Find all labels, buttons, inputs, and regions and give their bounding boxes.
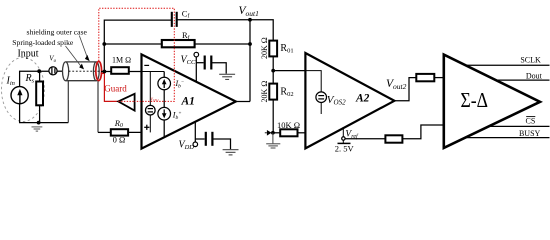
wire Vref resistor to ADC <box>402 125 443 139</box>
wire 10K to A2 <box>298 132 306 134</box>
svg-text:shielding outer case: shielding outer case <box>27 28 88 37</box>
guard loop black wire up and top <box>104 20 172 71</box>
ground J2 <box>266 133 280 148</box>
resistor Rs <box>36 82 43 106</box>
wire case to R0 <box>98 131 111 133</box>
svg-text:2. 5V: 2. 5V <box>335 144 355 154</box>
resistor 1M <box>111 67 129 74</box>
case left wall <box>67 81 69 123</box>
svg-text:CS: CS <box>526 116 536 125</box>
node bottom <box>37 121 41 125</box>
guard buffer triangle <box>118 94 134 111</box>
main wire cable to 1M <box>101 71 111 73</box>
svg-text:VOS1: VOS1 <box>150 96 159 102</box>
wire R01 to J1 <box>272 56 274 70</box>
Vref stem <box>342 127 344 137</box>
wire Iin bottom / ground rail <box>20 104 69 123</box>
Vcc terminal <box>194 52 199 57</box>
resistor Vout2 <box>416 74 434 81</box>
ground (input) <box>32 127 43 131</box>
current source Ib+ <box>158 107 171 137</box>
guard dashed loop <box>99 8 175 101</box>
resistor R02 <box>269 84 277 100</box>
node top <box>37 69 41 73</box>
node J2 <box>271 131 275 135</box>
op-amp A2 <box>305 53 394 148</box>
2.5V rail bar <box>338 142 351 144</box>
SCLK line <box>465 64 549 66</box>
wire Rs bottom <box>39 105 41 122</box>
resistor Rf <box>162 40 195 47</box>
ADC sigma-delta <box>444 55 540 148</box>
wire resistor to ADC <box>434 77 444 79</box>
wire R02 to J2 <box>272 100 274 133</box>
svg-text:BUSY: BUSY <box>519 129 541 138</box>
guard red wire <box>101 73 118 101</box>
A1 inverting input internal wire <box>142 71 165 73</box>
sensor model dashed ellipse <box>2 58 45 122</box>
decoupling cap Vcc <box>196 56 226 74</box>
svg-text:Spring-loaded spike: Spring-loaded spike <box>12 38 74 47</box>
svg-text:Dout: Dout <box>526 72 543 81</box>
svg-text:0 Ω: 0 Ω <box>113 135 126 145</box>
Vos1 stem to plus input <box>149 115 151 132</box>
coax shield cylinder <box>63 62 100 81</box>
wire J1 to A2 <box>273 70 305 72</box>
wire Rf to Vout1 node <box>195 43 250 45</box>
svg-text:1M Ω: 1M Ω <box>112 55 131 64</box>
Vos2 stem <box>320 103 322 115</box>
BUSY line <box>466 137 550 139</box>
wire 1M to A1 <box>129 71 142 73</box>
resistor 10K <box>280 129 297 136</box>
wire Iin top to node <box>20 71 49 86</box>
A2 plus input internal wire <box>305 71 321 92</box>
voltage source Vo <box>49 67 57 75</box>
svg-text:Guard: Guard <box>104 84 127 94</box>
wire J2 to 10K <box>273 132 280 134</box>
op-amp A1 <box>142 54 236 148</box>
leader spring-loaded spike <box>66 46 82 66</box>
offset source Vos1 <box>146 105 156 115</box>
node J1 <box>271 69 275 73</box>
CS line <box>489 125 550 127</box>
wiper arrow <box>267 130 272 136</box>
ground Vcc <box>219 74 235 79</box>
case right wall <box>97 81 99 132</box>
A1 minus sign <box>144 64 149 66</box>
resistor R01 <box>269 41 277 57</box>
resistor R0 <box>111 129 128 135</box>
node guard tap <box>103 70 107 74</box>
wire Vout1 to R01 <box>250 20 273 41</box>
svg-text:SCLK: SCLK <box>520 56 541 65</box>
spring-loaded spike (red ellipse) <box>96 61 102 80</box>
offset source Vos2 <box>316 92 327 103</box>
wire Cf to Vout1 node <box>177 19 250 21</box>
Dout line <box>496 79 550 81</box>
wire Vout1 vertical <box>249 20 251 102</box>
svg-text:Σ-Δ: Σ-Δ <box>461 88 489 112</box>
ground Vdd <box>223 150 239 155</box>
node Rf branch <box>102 42 106 46</box>
internal rail left <box>149 72 151 106</box>
svg-text:20K Ω: 20K Ω <box>260 81 269 103</box>
svg-text:A1: A1 <box>181 96 195 108</box>
wire Vo to cable <box>57 70 63 72</box>
wire Vref to resistor <box>345 138 385 140</box>
svg-text:20K Ω: 20K Ω <box>260 37 269 59</box>
cable inner conductor dashed <box>69 70 101 72</box>
A1 plus sign <box>144 125 149 130</box>
wire R0 to A1 plus <box>128 131 150 133</box>
guard dashed through buffer <box>118 100 134 102</box>
decoupling cap Vdd <box>195 132 230 149</box>
svg-text:Input: Input <box>17 48 38 59</box>
Vdd terminal <box>193 142 198 147</box>
resistor Vref <box>385 135 402 142</box>
svg-text:A2: A2 <box>355 93 370 105</box>
node Rf out <box>248 42 252 46</box>
wire A1 output <box>236 101 250 103</box>
svg-text:10K Ω: 10K Ω <box>277 120 300 130</box>
node Vout1 <box>248 18 252 22</box>
Vref node circle <box>342 137 345 140</box>
wire A2 output <box>394 78 416 101</box>
current source Iin <box>11 87 28 104</box>
wire J1 to R02 <box>272 71 274 84</box>
current source Ib- <box>158 72 171 108</box>
wire Rs top <box>39 71 41 81</box>
leader shielding outer case <box>79 36 88 59</box>
wire node to Rf <box>104 43 162 45</box>
capacitor Cf <box>172 12 177 27</box>
